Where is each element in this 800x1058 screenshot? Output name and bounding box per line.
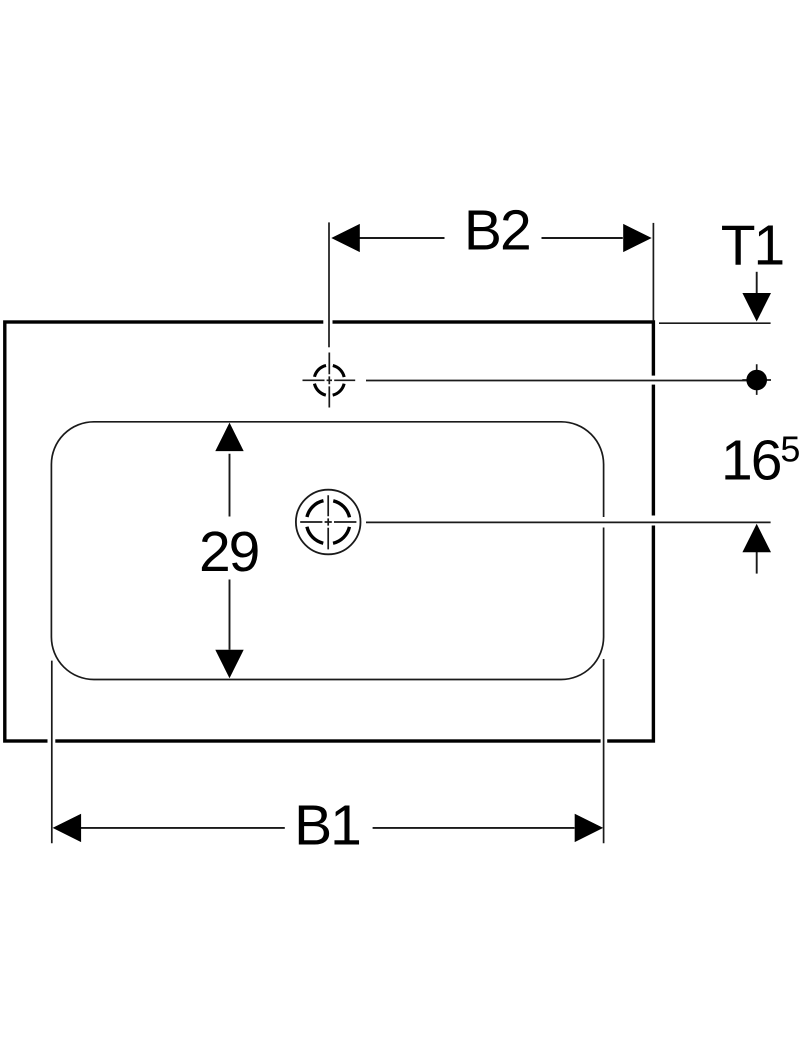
- drain hole centerline vertical: [327, 495, 329, 549]
- drain hole outer circle: [296, 490, 361, 555]
- svg-text:B2: B2: [464, 199, 530, 263]
- gap in top edge at B2 extension crossing: [323, 319, 332, 325]
- B1 extension line right: [603, 659, 605, 843]
- B2 arrowhead left: [331, 224, 360, 252]
- drain hole dashed circle: [306, 500, 350, 544]
- drain hole centerline horizontal: [300, 521, 356, 523]
- svg-text:T1: T1: [721, 214, 784, 278]
- B1 extension line left: [51, 661, 53, 844]
- top edge extension line to the right: [659, 322, 771, 324]
- faucet hole leader line: [366, 380, 747, 382]
- dimension 29 line: [229, 454, 231, 650]
- gap in right edge at drain leader crossing: [651, 516, 657, 526]
- svg-text:29: 29: [199, 520, 258, 584]
- B2 dimension line: [359, 237, 623, 239]
- faucet hole centerline horizontal: [303, 379, 356, 381]
- dimension 29 arrowhead up: [215, 423, 243, 452]
- B2 arrowhead right: [623, 224, 652, 252]
- gap in bottom edge at B1 right extension crossing: [601, 738, 608, 744]
- dimension 16-5 arrowhead up: [742, 524, 771, 553]
- faucet hole dashed circle: [314, 365, 344, 395]
- dimension 16-5 tail line: [756, 552, 758, 574]
- basin bowl rounded outline: [51, 422, 603, 680]
- T1 dimension tail line: [756, 272, 758, 295]
- svg-text:B1: B1: [294, 794, 360, 858]
- datum dot cross ticks: [742, 364, 771, 395]
- dimension 29 arrowhead down: [215, 650, 243, 679]
- B1 arrowhead right: [575, 814, 604, 842]
- gap in bowl right edge at drain leader crossing: [602, 517, 606, 528]
- B1 dimension line: [81, 827, 575, 829]
- drain hole leader line: [366, 521, 771, 523]
- B1 arrowhead left: [53, 814, 82, 842]
- faucet hole centerline vertical: [328, 353, 330, 408]
- B2 extension line left: [328, 222, 330, 347]
- gap in bottom edge at B1 left extension crossing: [48, 738, 56, 744]
- B2 extension line right: [652, 223, 654, 321]
- T1 arrowhead down: [742, 293, 771, 322]
- gap in right edge at faucet leader crossing: [651, 376, 657, 385]
- datum dot: [746, 370, 767, 391]
- washbasin outer edge rectangle: [5, 322, 654, 741]
